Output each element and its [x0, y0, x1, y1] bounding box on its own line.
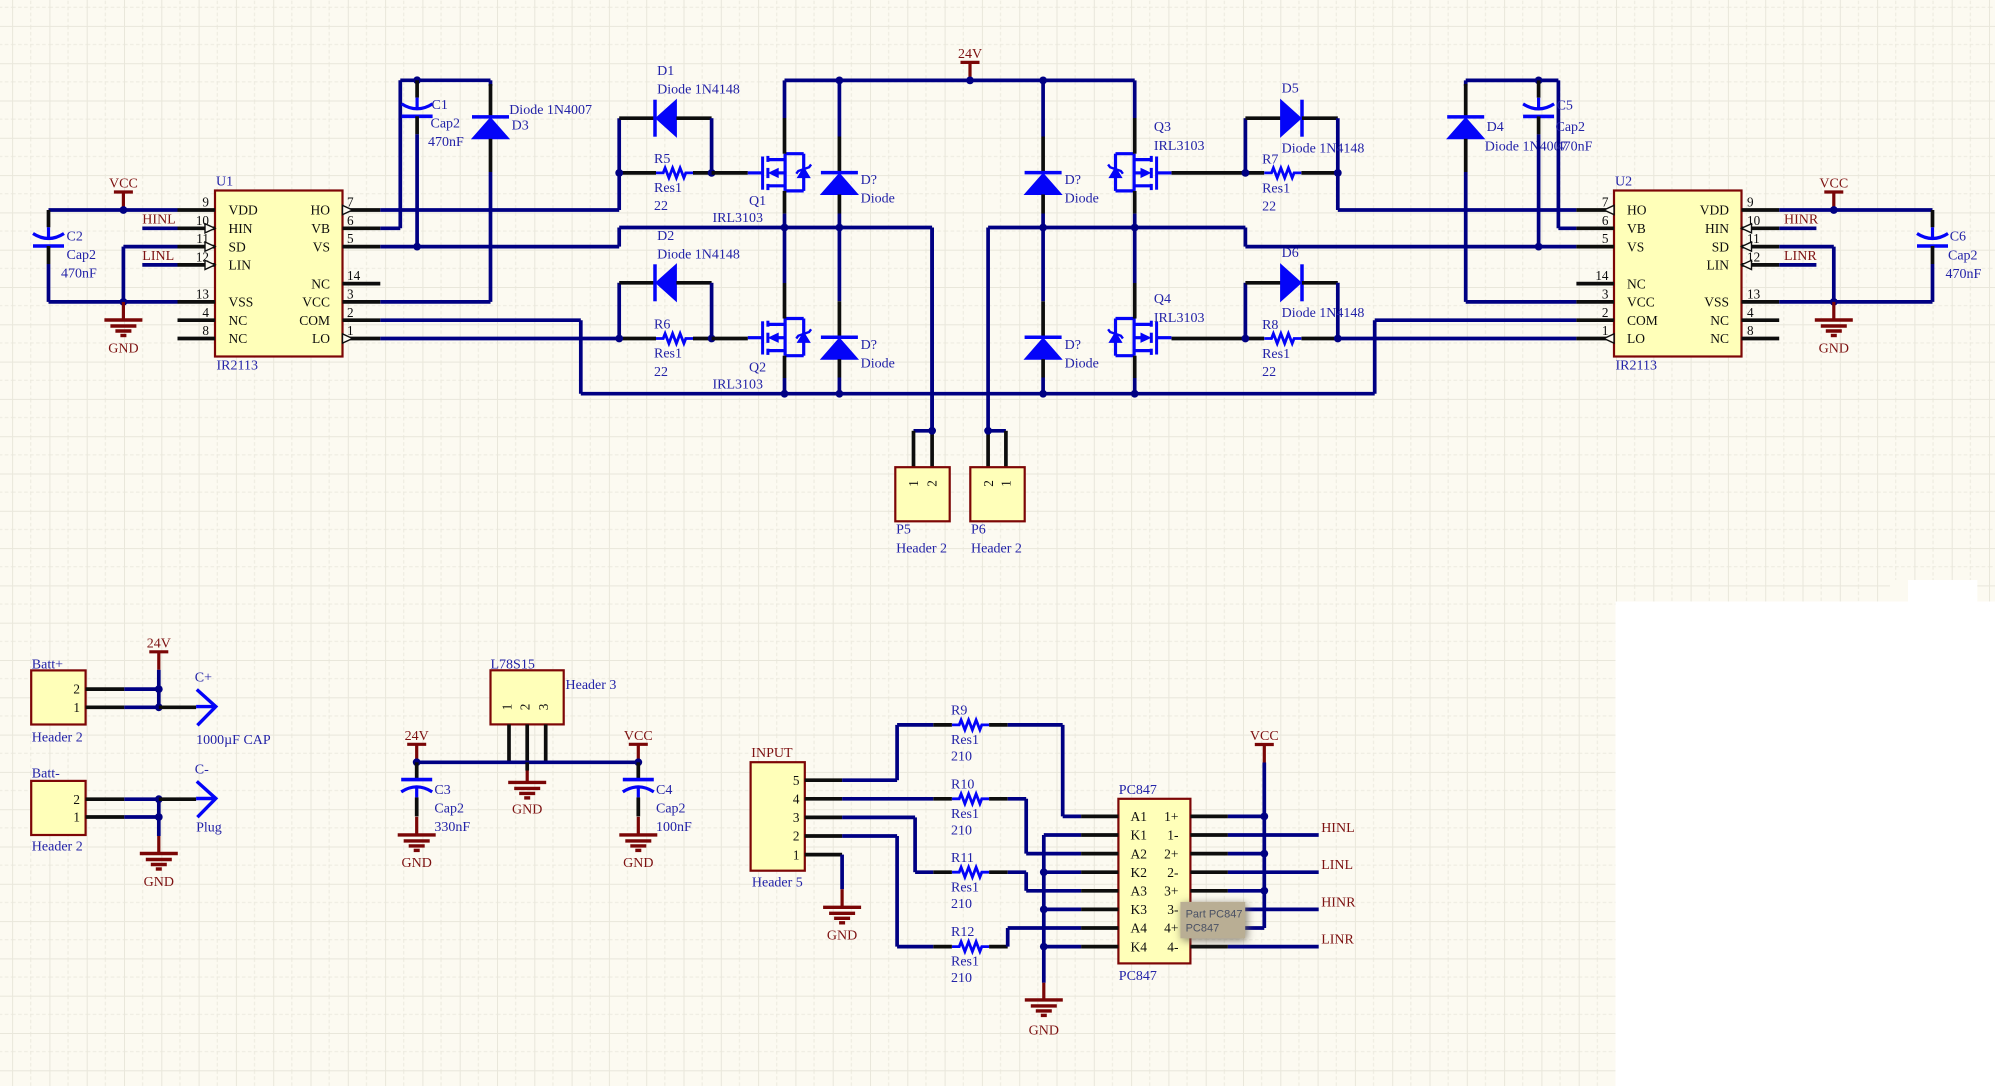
junction D? top-right 24V: [1039, 77, 1047, 85]
svg-text:2+: 2+: [1164, 846, 1178, 861]
junction R5 left: [615, 169, 623, 177]
connector INPUT Header 5: [751, 746, 843, 891]
svg-text:C+: C+: [195, 671, 212, 686]
junction D? lower-right COM: [1039, 390, 1047, 398]
net label LINR: [1779, 249, 1817, 265]
svg-text:VDD: VDD: [229, 203, 258, 218]
svg-text:R11: R11: [951, 851, 974, 866]
svg-text:3: 3: [793, 810, 800, 825]
svg-text:VCC: VCC: [302, 295, 330, 310]
svg-text:9: 9: [202, 195, 209, 210]
diode D1 Diode 1N4148: [619, 64, 740, 173]
net label LINR (output): [1228, 933, 1355, 948]
svg-text:2: 2: [793, 829, 800, 844]
wire HO U1 to R5: [380, 173, 619, 210]
svg-text:R10: R10: [951, 777, 974, 792]
junction VDD-VCC U2: [1830, 206, 1838, 214]
svg-text:210: 210: [951, 823, 972, 838]
wire COM bus: [380, 320, 1576, 394]
power port 24V (battery): [147, 637, 171, 690]
svg-text:IRL3103: IRL3103: [1154, 139, 1205, 154]
svg-text:LIN: LIN: [1707, 258, 1730, 273]
svg-text:VSS: VSS: [229, 295, 254, 310]
svg-text:LINL: LINL: [142, 249, 174, 264]
svg-text:D1: D1: [657, 64, 674, 79]
svg-text:24V: 24V: [147, 637, 171, 652]
svg-text:GND: GND: [144, 875, 174, 890]
connector Batt- Header 2: [31, 767, 124, 855]
wire cathode GND bus: [1044, 835, 1081, 983]
net label HINL (output): [1228, 821, 1355, 836]
svg-text:Diode: Diode: [1065, 356, 1099, 371]
svg-text:LIN: LIN: [229, 258, 252, 273]
ground GND (C4): [619, 817, 657, 871]
resistor R6 Res1 22: [619, 318, 711, 380]
svg-text:VS: VS: [313, 239, 330, 254]
svg-text:5: 5: [1602, 231, 1609, 246]
svg-text:Res1: Res1: [1262, 347, 1290, 362]
svg-text:GND: GND: [827, 929, 857, 944]
svg-text:D3: D3: [512, 119, 529, 134]
svg-text:LINR: LINR: [1321, 933, 1354, 948]
junction Q1 source bus: [781, 224, 789, 232]
wire VS bus right: [988, 228, 1576, 247]
svg-text:4: 4: [1747, 305, 1754, 320]
junction R6 left: [615, 335, 623, 343]
wire VDD rail U2: [1779, 208, 1932, 212]
svg-text:P5: P5: [896, 523, 911, 538]
svg-text:6: 6: [347, 213, 354, 228]
diode D6 Diode 1N4148: [1245, 246, 1364, 338]
svg-text:210: 210: [951, 897, 972, 912]
diode D? (freewheel, upper left): [821, 80, 895, 227]
wire Q2 drain: [783, 228, 787, 319]
wire Batt+ tie: [157, 689, 161, 707]
transistor Q4 IRL3103: [1108, 292, 1204, 356]
svg-text:NC: NC: [311, 276, 330, 291]
junction 1+ VCC: [1260, 813, 1268, 821]
junction Batt- GND: [155, 813, 163, 821]
svg-text:Q4: Q4: [1154, 292, 1171, 307]
plug C- Plug: [159, 763, 222, 836]
svg-text:Cap2: Cap2: [1948, 249, 1978, 264]
svg-text:GND: GND: [108, 341, 138, 356]
svg-text:1: 1: [793, 847, 800, 862]
svg-text:PC847: PC847: [1119, 783, 1157, 798]
svg-text:VCC: VCC: [109, 177, 138, 192]
U1 pins left (9,10,11,12,13,4,8): [178, 195, 258, 347]
svg-text:GND: GND: [1819, 341, 1849, 356]
capacitor C2 Cap2 470nF: [33, 210, 97, 302]
svg-text:SD: SD: [1712, 239, 1730, 254]
junction K2: [1040, 868, 1048, 876]
svg-text:Q3: Q3: [1154, 120, 1171, 135]
wire VCC pin3 U2: [1466, 300, 1577, 304]
svg-text:Diode: Diode: [861, 192, 895, 207]
op-amp driver U1 IR2113: [215, 175, 343, 374]
svg-text:GND: GND: [512, 803, 542, 818]
svg-text:LINR: LINR: [1784, 249, 1817, 264]
power port VCC (outputs): [1250, 729, 1279, 762]
junction VB-C5: [1535, 77, 1543, 85]
svg-text:4: 4: [202, 305, 209, 320]
svg-text:22: 22: [1262, 199, 1276, 214]
svg-text:R6: R6: [654, 318, 670, 333]
svg-text:210: 210: [951, 750, 972, 765]
svg-text:14: 14: [347, 268, 361, 283]
junction VCC-C4: [634, 758, 642, 766]
wire VCC pin3 U1: [380, 300, 490, 304]
svg-text:Cap2: Cap2: [434, 802, 464, 817]
pin 2 L78S15: [525, 724, 529, 762]
connector Batt+ Header 2: [31, 658, 124, 746]
wire Batt- tie: [157, 799, 161, 836]
PC847 pins right (1+..4-): [1164, 809, 1228, 954]
svg-text:HO: HO: [311, 203, 331, 218]
junction R8 right: [1334, 335, 1342, 343]
svg-text:Q1: Q1: [749, 194, 766, 209]
svg-text:D5: D5: [1282, 81, 1299, 96]
svg-text:470nF: 470nF: [1557, 140, 1593, 155]
junction Batt+ C+: [155, 703, 163, 711]
svg-text:8: 8: [1747, 323, 1754, 338]
svg-text:HINR: HINR: [1784, 213, 1819, 228]
resistor R7 Res1 22: [1245, 152, 1337, 214]
svg-text:Batt-: Batt-: [32, 767, 60, 782]
diode D3 Diode 1N4007: [472, 80, 592, 302]
svg-text:2: 2: [924, 480, 939, 487]
svg-text:IR2113: IR2113: [1616, 359, 1657, 374]
svg-text:Cap2: Cap2: [431, 117, 461, 132]
power port VCC (regulator): [624, 729, 653, 762]
wire VSS rail U1: [49, 300, 178, 304]
svg-text:HO: HO: [1627, 203, 1647, 218]
svg-text:PC847: PC847: [1186, 923, 1220, 935]
svg-text:Diode 1N4148: Diode 1N4148: [657, 83, 740, 98]
svg-text:K4: K4: [1131, 939, 1148, 954]
svg-text:HIN: HIN: [229, 221, 253, 236]
ground GND (C3): [398, 817, 436, 871]
svg-text:C6: C6: [1950, 230, 1966, 245]
svg-text:Diode 1N4007: Diode 1N4007: [1485, 140, 1568, 155]
svg-text:Q2: Q2: [749, 361, 766, 376]
resistor R12 Res1 210: [933, 925, 1007, 986]
svg-text:COM: COM: [1627, 313, 1658, 328]
net label HINR: [1779, 213, 1819, 229]
wire input3 to R11: [842, 817, 933, 872]
junction D? top-left: [836, 77, 844, 85]
junction Batt- C-: [155, 795, 163, 803]
svg-text:R5: R5: [654, 152, 670, 167]
svg-text:Cap2: Cap2: [67, 248, 97, 263]
junction VS-C1: [413, 243, 421, 251]
wire LO U1 to R6: [380, 337, 619, 341]
svg-text:13: 13: [196, 287, 210, 302]
junction VDD-VCC: [120, 206, 128, 214]
resistor R9 Res1 210: [933, 704, 1007, 765]
svg-text:D?: D?: [1065, 338, 1081, 353]
svg-text:Batt+: Batt+: [32, 658, 63, 673]
svg-text:4-: 4-: [1167, 939, 1179, 954]
svg-text:VCC: VCC: [1627, 295, 1655, 310]
svg-text:6: 6: [1602, 213, 1609, 228]
wire VS U1: [380, 228, 619, 247]
wire Q3 drain: [1133, 80, 1137, 153]
svg-text:D?: D?: [861, 338, 877, 353]
svg-text:5: 5: [347, 231, 354, 246]
svg-text:R9: R9: [951, 704, 967, 719]
svg-text:9: 9: [1747, 195, 1754, 210]
transistor Q2 IRL3103: [713, 319, 812, 393]
svg-text:2: 2: [73, 792, 80, 807]
svg-text:VCC: VCC: [1819, 177, 1848, 192]
wire 24V rail: [785, 79, 1135, 83]
svg-text:HINL: HINL: [142, 213, 175, 228]
svg-text:NC: NC: [1627, 276, 1646, 291]
ground GND (battery): [140, 836, 178, 890]
net label HINR (output): [1228, 895, 1356, 910]
PC847 pins left (A1..K4): [1081, 809, 1147, 954]
wire Batt- pin2: [124, 797, 159, 801]
svg-text:NC: NC: [229, 313, 248, 328]
resistor R11 Res1 210: [933, 851, 1007, 912]
svg-text:COM: COM: [299, 313, 330, 328]
power port VCC (U2): [1819, 177, 1848, 210]
svg-text:VCC: VCC: [624, 729, 653, 744]
wire Q1 source: [783, 191, 787, 228]
svg-text:K2: K2: [1131, 865, 1148, 880]
wire Batt+ pin2: [124, 687, 159, 691]
wire regulator rail: [417, 760, 639, 764]
diode D? (freewheel, lower left): [821, 228, 895, 394]
svg-text:C3: C3: [434, 783, 450, 798]
capacitor C5 Cap2 470nF: [1523, 80, 1593, 246]
svg-text:A2: A2: [1131, 846, 1148, 861]
junction K4: [1040, 943, 1048, 951]
wire Q3 source: [1133, 191, 1137, 228]
svg-text:VB: VB: [311, 221, 330, 236]
junction Q4 source COM: [1131, 390, 1139, 398]
junction P6: [984, 427, 992, 435]
svg-text:VDD: VDD: [1700, 203, 1729, 218]
svg-text:Res1: Res1: [654, 181, 682, 196]
ground GND (U2): [1815, 302, 1853, 356]
svg-text:8: 8: [202, 323, 209, 338]
svg-text:VS: VS: [1627, 239, 1644, 254]
svg-text:Header 2: Header 2: [896, 542, 947, 557]
svg-text:3: 3: [1602, 287, 1609, 302]
svg-text:VCC: VCC: [1250, 729, 1279, 744]
wire R5 to Q1 gate: [712, 171, 748, 175]
junction D? lower-left COM: [836, 390, 844, 398]
wire VSS rail U2: [1779, 300, 1932, 304]
transistor Q3 IRL3103: [1108, 120, 1204, 191]
capacitor C+ 1000uF CAP (plug): [159, 671, 271, 749]
svg-text:R12: R12: [951, 925, 974, 940]
wire Q1 drain: [783, 80, 787, 153]
svg-text:4+: 4+: [1164, 921, 1178, 936]
svg-text:IRL3103: IRL3103: [713, 211, 764, 226]
wire Q2 source: [783, 356, 787, 394]
svg-text:R8: R8: [1262, 318, 1278, 333]
svg-text:C5: C5: [1557, 99, 1573, 114]
wire VB rail right: [1466, 80, 1577, 228]
svg-text:Header 2: Header 2: [32, 840, 83, 855]
svg-text:L78S15: L78S15: [491, 658, 535, 673]
power port VCC (U1): [109, 177, 138, 210]
wire input2 to R12: [842, 836, 933, 947]
svg-text:Cap2: Cap2: [656, 802, 686, 817]
svg-text:R7: R7: [1262, 152, 1278, 167]
svg-text:Res1: Res1: [654, 347, 682, 362]
svg-text:Header 2: Header 2: [971, 542, 1022, 557]
svg-text:2: 2: [518, 704, 533, 711]
capacitor C6 Cap2 470nF: [1917, 210, 1982, 302]
diode D? (freewheel, upper right): [1025, 80, 1099, 227]
junction Q2 source COM: [781, 390, 789, 398]
svg-text:1: 1: [999, 480, 1014, 487]
svg-text:D4: D4: [1487, 120, 1504, 135]
svg-text:INPUT: INPUT: [751, 746, 793, 761]
svg-text:VSS: VSS: [1704, 295, 1729, 310]
junction Batt+ 24V: [155, 685, 163, 693]
junction 2+ VCC: [1260, 850, 1268, 858]
wire input1 to GND: [840, 855, 844, 890]
svg-text:A1: A1: [1131, 809, 1148, 824]
svg-text:LINL: LINL: [1321, 858, 1353, 873]
junction R8 left: [1242, 335, 1250, 343]
svg-text:C-: C-: [195, 763, 209, 778]
svg-text:NC: NC: [229, 331, 248, 346]
svg-text:D2: D2: [657, 229, 674, 244]
junction R5 right: [708, 169, 716, 177]
svg-text:2: 2: [1602, 305, 1609, 320]
svg-text:C2: C2: [67, 230, 83, 245]
svg-text:4: 4: [793, 792, 800, 807]
svg-text:K1: K1: [1131, 828, 1148, 843]
svg-text:GND: GND: [623, 856, 653, 871]
svg-text:2: 2: [347, 305, 354, 320]
diode D4 Diode 1N4007: [1447, 80, 1567, 302]
power port 24V (regulator): [405, 729, 429, 762]
svg-text:2: 2: [73, 682, 80, 697]
wire Batt- pin1: [124, 815, 159, 819]
svg-text:210: 210: [951, 971, 972, 986]
svg-text:1000µF CAP: 1000µF CAP: [196, 733, 271, 748]
wire R7 to HO U2: [1338, 173, 1577, 210]
svg-text:2-: 2-: [1167, 865, 1179, 880]
net label LINL: [142, 249, 177, 265]
junction R6 right: [708, 335, 716, 343]
wire VS bus left: [619, 228, 932, 431]
svg-text:1: 1: [73, 810, 80, 825]
svg-text:Header 3: Header 3: [566, 678, 617, 693]
svg-text:7: 7: [1602, 195, 1609, 210]
power port 24V: [958, 47, 982, 80]
wire VB to C1 rail: [380, 80, 490, 228]
svg-text:470nF: 470nF: [428, 135, 464, 150]
svg-text:5: 5: [793, 773, 800, 788]
svg-text:HIN: HIN: [1705, 221, 1729, 236]
svg-text:HINR: HINR: [1321, 895, 1356, 910]
wire R12 to A4: [1008, 928, 1081, 947]
ground GND (input): [823, 889, 861, 943]
svg-text:470nF: 470nF: [1946, 267, 1982, 282]
junction D? upper-left bus: [836, 224, 844, 232]
svg-text:LO: LO: [312, 331, 330, 346]
svg-text:Diode: Diode: [1065, 192, 1099, 207]
svg-text:24V: 24V: [405, 729, 429, 744]
svg-text:NC: NC: [1710, 331, 1729, 346]
resistor R10 Res1 210: [933, 777, 1007, 838]
junction K3: [1040, 906, 1048, 914]
junction VB rail: [413, 76, 421, 84]
resistor R8 Res1 22: [1245, 318, 1337, 380]
junction 24V-C3: [413, 758, 421, 766]
junction VSS-GND U2: [1830, 298, 1838, 306]
capacitor C4 Cap2 100nF: [623, 762, 692, 835]
svg-text:100nF: 100nF: [656, 820, 692, 835]
svg-text:Header 5: Header 5: [752, 875, 803, 890]
svg-text:22: 22: [654, 199, 668, 214]
svg-text:LO: LO: [1627, 331, 1645, 346]
svg-text:Header 2: Header 2: [32, 731, 83, 746]
svg-text:Diode 1N4007: Diode 1N4007: [509, 103, 592, 118]
wire VDD rail U1: [49, 208, 178, 212]
diode D2 Diode 1N4148: [619, 229, 740, 339]
svg-text:Part PC847: Part PC847: [1186, 908, 1243, 920]
wire SD to VSS: [123, 247, 177, 302]
svg-text:Res1: Res1: [951, 807, 979, 822]
svg-text:D6: D6: [1282, 246, 1299, 261]
svg-text:NC: NC: [1710, 313, 1729, 328]
wire R10 to A2: [1008, 799, 1081, 854]
ground GND (regulator pin2): [508, 762, 546, 817]
svg-text:Cap2: Cap2: [1556, 120, 1586, 135]
wire R6 to Q2 gate: [712, 337, 748, 341]
wire SD U2 to VSS: [1779, 247, 1834, 302]
svg-text:3-: 3-: [1167, 902, 1179, 917]
svg-text:A3: A3: [1131, 884, 1148, 899]
junction P5: [928, 427, 936, 435]
svg-text:24V: 24V: [958, 47, 982, 62]
svg-text:C1: C1: [432, 98, 448, 113]
U1 pins right (7,6,5,14,3,2,1): [299, 195, 380, 347]
wire collector VCC bus: [1228, 763, 1264, 929]
svg-text:Res1: Res1: [951, 880, 979, 895]
svg-text:K3: K3: [1131, 902, 1148, 917]
junction R7 left: [1242, 169, 1250, 177]
wire input4 to R10: [842, 797, 933, 801]
tooltip Part PC847: [1180, 902, 1245, 938]
wire R8 to LO U2: [1338, 337, 1577, 341]
svg-text:14: 14: [1595, 268, 1609, 283]
net label LINL (output): [1228, 858, 1353, 873]
wire R11 to A3: [1008, 872, 1081, 891]
U2 pins left (7,6,5,14,3,2,1): [1576, 195, 1657, 347]
svg-text:22: 22: [1262, 365, 1276, 380]
wire Batt+ pin1: [124, 705, 159, 709]
svg-text:2: 2: [981, 480, 996, 487]
regulator U? L78S15 Header 3: [491, 658, 617, 725]
svg-text:1-: 1-: [1167, 828, 1179, 843]
connector P5 Header 2: [895, 228, 949, 557]
svg-text:A4: A4: [1131, 921, 1148, 936]
svg-text:1: 1: [906, 480, 921, 487]
wire Q4 gate to R8: [1172, 337, 1246, 341]
svg-text:IR2113: IR2113: [217, 359, 258, 374]
svg-text:VB: VB: [1627, 221, 1646, 236]
